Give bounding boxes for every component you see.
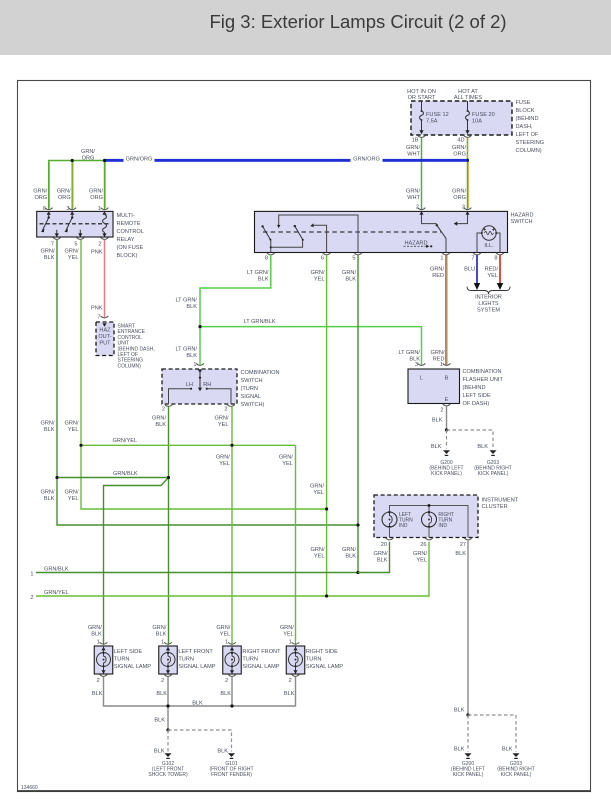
- dashed BLK to G200: [431, 430, 447, 450]
- svg-text:20: 20: [381, 542, 387, 548]
- svg-text:BLK: BLK: [258, 276, 269, 282]
- svg-text:7.5A: 7.5A: [426, 119, 438, 125]
- svg-text:COMBINATION: COMBINATION: [241, 370, 280, 376]
- label COMBINATION FLASHER UNIT (BEHIND LEFT SIDE OF DASH): [463, 369, 504, 407]
- svg-text:RIGHT SIDE: RIGHT SIDE: [306, 649, 338, 655]
- svg-text:(ON FUSE: (ON FUSE: [117, 245, 144, 251]
- svg-text:SWITCH: SWITCH: [241, 378, 263, 384]
- svg-text:GRN/YEL: GRN/YEL: [44, 590, 69, 596]
- label LEFT FRONT TURN SIGNAL LAMP: [178, 649, 215, 670]
- svg-text:BLK: BLK: [155, 422, 166, 428]
- svg-text:IND: IND: [438, 523, 447, 529]
- right side turn signal lamp: [286, 646, 305, 674]
- hazard switch arm B: [294, 225, 304, 241]
- svg-text:7: 7: [51, 241, 54, 247]
- svg-text:GRN/: GRN/: [65, 490, 79, 496]
- svg-text:ORG: ORG: [58, 195, 71, 201]
- svg-text:YEL: YEL: [68, 427, 79, 433]
- svg-text:LT GRN/: LT GRN/: [175, 297, 197, 303]
- label HOT AT ALL TIMES: [454, 89, 483, 101]
- svg-text:FLASHER UNIT: FLASHER UNIT: [463, 377, 504, 383]
- label GRN/YEL lower riser: [65, 490, 79, 503]
- wire GRN/ORG to relay pin 1: [104, 161, 107, 210]
- svg-text:2: 2: [225, 678, 228, 684]
- svg-text:BLK: BLK: [455, 551, 466, 557]
- wire GRN/ORG to relay pin 3: [71, 161, 74, 210]
- svg-text:OUT-: OUT-: [98, 334, 111, 340]
- label GRN/YEL above right side turn signal lamp: [280, 625, 294, 638]
- svg-text:YEL: YEL: [314, 276, 325, 282]
- label GRN/YEL under relay pin 5: [65, 248, 79, 260]
- hazard switch internal linkage dashed line: [263, 231, 441, 233]
- svg-text:SIGNAL: SIGNAL: [241, 394, 262, 400]
- wire BLK left front lamp to ground splice: [167, 677, 169, 730]
- svg-text:OF DASH): OF DASH): [463, 401, 490, 407]
- junction node GRN/YEL at comb switch drop: [230, 444, 233, 447]
- label HAZARD with pointer: [404, 240, 433, 248]
- svg-text:1B: 1B: [412, 138, 419, 144]
- svg-text:CLUSTER: CLUSTER: [482, 504, 508, 510]
- svg-text:1: 1: [30, 571, 33, 577]
- junction node LT GRN/BLK: [198, 325, 201, 328]
- svg-text:LT GRN/: LT GRN/: [175, 347, 197, 353]
- label GRN/BLK under comb switch left pin 2: [152, 415, 166, 428]
- svg-text:TURN: TURN: [178, 657, 194, 663]
- svg-text:PNK: PNK: [91, 306, 103, 312]
- svg-text:BLK: BLK: [192, 700, 203, 706]
- svg-text:2: 2: [97, 678, 100, 684]
- wire LT GRN/BLK hazard pin 8 to combination switch pin 1: [175, 255, 270, 365]
- svg-text:BLK: BLK: [44, 255, 55, 261]
- svg-text:26: 26: [420, 542, 426, 548]
- svg-text:1: 1: [440, 255, 443, 261]
- svg-text:YEL: YEL: [314, 554, 325, 560]
- svg-text:GRN/ORG: GRN/ORG: [353, 156, 380, 162]
- label GRN/ORG above relay pin 6: [33, 189, 47, 202]
- relay internal linkage dashed line: [40, 223, 111, 225]
- label GRN/BLK mid riser: [41, 421, 55, 434]
- hazard internal wire from arms to pin 5: [277, 215, 358, 253]
- wire GRN/BLK crossover comb switch pin2 to relay pin7 riser: [57, 471, 169, 478]
- svg-text:KICK PANEL): KICK PANEL): [453, 772, 484, 778]
- svg-text:134660: 134660: [21, 785, 38, 791]
- wire GRN/BLK comb switch left pin 2 down to left front lamp: [168, 406, 170, 645]
- pin 4D connector: [457, 135, 471, 143]
- wire GRN/BLK hazard pin 5 down to cluster pin 20: [357, 255, 359, 573]
- svg-text:BLK: BLK: [345, 554, 356, 560]
- svg-text:YEL: YEL: [313, 490, 324, 496]
- combination flasher unit box: [408, 369, 460, 404]
- dashed BLK to G102: [154, 730, 168, 754]
- relay coil pin1-pin2: [102, 211, 106, 237]
- svg-text:B: B: [445, 376, 449, 382]
- svg-text:GRN/: GRN/: [88, 625, 102, 631]
- wire BLU to interior lights system: [474, 255, 480, 290]
- label GRN/YEL above right side lamp riser: [279, 455, 293, 468]
- right front turn signal lamp: [223, 646, 242, 674]
- svg-text:GRN/: GRN/: [65, 421, 79, 427]
- hazard switch arm C (hazard contact): [436, 224, 446, 253]
- wire BLK flasher pin 2 to ground splice: [432, 406, 447, 430]
- label GRN/YEL above right front turn signal lamp: [216, 625, 230, 638]
- svg-text:8: 8: [494, 255, 497, 261]
- svg-text:FUSE: FUSE: [516, 100, 531, 106]
- hazard top pin connectors 2,3: [418, 208, 426, 210]
- label GRN/ORG above relay pin 1: [89, 189, 103, 202]
- svg-text:GRN/: GRN/: [152, 415, 166, 421]
- left side turn signal lamp pin 2 connector: [97, 674, 108, 684]
- wire GRN/YEL relay pin 5 down and right to hazard pin6 riser: [81, 240, 327, 509]
- svg-text:ORG: ORG: [34, 195, 47, 201]
- svg-text:(TURN: (TURN: [241, 386, 258, 392]
- svg-text:8: 8: [265, 255, 268, 261]
- svg-text:SHOCK TOWER): SHOCK TOWER): [148, 772, 188, 778]
- svg-text:GRN/: GRN/: [81, 149, 95, 155]
- junction node relay pin1 riser / bus start: [103, 159, 106, 162]
- label GRN/RED under hazard pin 1: [430, 266, 444, 279]
- label GRN/BLK above left front turn signal lamp: [152, 625, 166, 638]
- svg-text:BLK: BLK: [156, 632, 167, 638]
- svg-text:GRN/: GRN/: [311, 270, 325, 276]
- wire BLK right front lamp to bus: [231, 677, 233, 706]
- svg-text:3: 3: [66, 206, 69, 212]
- wire GRN/YEL drop to right side lamp: [295, 445, 297, 645]
- svg-text:1: 1: [440, 362, 443, 368]
- dashed BLK to G200 right pair: [454, 715, 468, 753]
- left front turn signal lamp pin 1 connector: [161, 640, 172, 646]
- label GRN/YEL hazard pin6 riser lower: [311, 547, 325, 560]
- svg-text:BLK: BLK: [44, 496, 55, 502]
- svg-text:IND: IND: [399, 523, 408, 529]
- ground splice node: [445, 428, 448, 431]
- junction node bus at right front lamp: [230, 704, 233, 707]
- svg-text:FUSE 12: FUSE 12: [426, 112, 449, 118]
- label GRN/BLK lower riser: [41, 490, 55, 503]
- svg-text:CONTROL: CONTROL: [117, 229, 144, 235]
- svg-text:GRN/: GRN/: [311, 547, 325, 553]
- hazard internal wire to pin 6: [310, 223, 326, 252]
- svg-text:GRN/: GRN/: [41, 248, 55, 254]
- relay bottom pin connectors 7,5,2: [53, 237, 61, 239]
- svg-text:GRN/: GRN/: [65, 248, 79, 254]
- svg-text:1: 1: [193, 362, 196, 368]
- label GRN/BLK under cluster pin 20: [374, 551, 388, 564]
- right front turn signal lamp pin 1 connector: [225, 640, 236, 646]
- svg-text:BLK: BLK: [91, 632, 102, 638]
- svg-text:E: E: [445, 397, 449, 403]
- junction node bus at left front lamp: [166, 704, 169, 707]
- svg-text:10A: 10A: [472, 119, 482, 125]
- dashed BLK to G101: [168, 730, 232, 754]
- ground G102 (left front shock tower): [148, 753, 188, 778]
- right side turn signal lamp pin 2 connector: [289, 674, 300, 684]
- svg-text:5: 5: [74, 241, 77, 247]
- left turn indicator lamp: [382, 511, 413, 538]
- label LT GRN/BLK under hazard pin 8: [247, 270, 269, 283]
- svg-text:BLK: BLK: [217, 748, 228, 754]
- svg-text:SIGNAL LAMP: SIGNAL LAMP: [178, 664, 215, 670]
- svg-text:COMBINATION: COMBINATION: [463, 369, 502, 375]
- label HOT IN ON OR START: [407, 89, 436, 101]
- svg-text:YEL: YEL: [220, 632, 231, 638]
- svg-text:2: 2: [224, 406, 227, 412]
- svg-text:FRONT FENDER): FRONT FENDER): [211, 772, 252, 778]
- svg-text:BLU: BLU: [464, 266, 475, 272]
- svg-text:GRN/: GRN/: [57, 189, 71, 195]
- combination flasher unit top pin connectors 3,1: [418, 363, 426, 365]
- svg-text:TURN: TURN: [306, 657, 322, 663]
- svg-text:LEFT OF: LEFT OF: [516, 132, 539, 138]
- svg-text:BLK: BLK: [431, 444, 442, 450]
- svg-text:GRN/YEL: GRN/YEL: [113, 438, 138, 444]
- relay top pin connectors 6,3,1: [45, 208, 53, 210]
- svg-text:(BEHIND: (BEHIND: [463, 385, 486, 391]
- label GRN/BLK under hazard pin 5: [342, 270, 356, 283]
- hazard switch ILL lamp: [477, 226, 500, 253]
- svg-text:GRN/ORG: GRN/ORG: [126, 156, 153, 162]
- svg-text:HAZARD: HAZARD: [405, 240, 428, 246]
- hazard internal wire pin 2 to arm C: [422, 211, 437, 223]
- svg-text:LEFT FRONT: LEFT FRONT: [178, 649, 213, 655]
- interior lights system brace and label: [467, 287, 510, 314]
- left side turn signal lamp: [94, 646, 113, 674]
- svg-text:MULTI-: MULTI-: [117, 213, 135, 219]
- svg-text:GRN/: GRN/: [342, 547, 356, 553]
- ground G203 (behind right kick panel): [474, 450, 512, 477]
- svg-text:HAZARD: HAZARD: [511, 213, 534, 219]
- svg-text:COLUMN): COLUMN): [516, 148, 542, 154]
- wire BLK cluster pin 27 to ground splice: [454, 540, 468, 715]
- svg-text:RED/: RED/: [485, 266, 499, 272]
- svg-text:PNK: PNK: [91, 250, 103, 256]
- svg-text:5: 5: [352, 255, 355, 261]
- svg-text:RH: RH: [203, 382, 211, 388]
- label LEFT SIDE TURN SIGNAL LAMP: [114, 649, 151, 670]
- svg-text:GRN/: GRN/: [406, 145, 420, 151]
- svg-text:TURN: TURN: [114, 657, 130, 663]
- dashed BLK to G203: [447, 430, 494, 450]
- svg-text:GRN/: GRN/: [279, 455, 293, 461]
- svg-text:YEL: YEL: [68, 496, 79, 502]
- svg-text:ILL.: ILL.: [484, 243, 494, 249]
- svg-text:YEL: YEL: [282, 461, 293, 467]
- svg-text:BLK: BLK: [92, 691, 103, 697]
- svg-text:LEFT SIDE: LEFT SIDE: [114, 649, 142, 655]
- svg-text:INSTRUMENT: INSTRUMENT: [482, 498, 519, 504]
- label FUSE BLOCK (BEHIND DASH, LEFT OF STEERING COLUMN): [516, 100, 545, 154]
- svg-text:GRN/BLK: GRN/BLK: [44, 566, 69, 572]
- label INSTRUMENT CLUSTER: [482, 498, 519, 511]
- svg-text:4D: 4D: [457, 138, 464, 144]
- svg-text:1: 1: [97, 640, 100, 646]
- svg-text:GRN/: GRN/: [413, 551, 427, 557]
- svg-text:2: 2: [162, 406, 165, 412]
- svg-text:GRN/: GRN/: [215, 415, 229, 421]
- svg-text:LEFT SIDE: LEFT SIDE: [463, 393, 491, 399]
- wire GRN/BLK relay pin 7 down and right to hazard pin5 riser: [57, 240, 358, 525]
- multi-remote control relay box: [37, 211, 113, 237]
- svg-text:LT GRN/BLK: LT GRN/BLK: [244, 319, 276, 325]
- svg-text:HOT AT: HOT AT: [458, 89, 478, 95]
- fuse 12 7.5A: [419, 101, 448, 134]
- label GRN/ORG above relay pin 3: [57, 189, 71, 202]
- label GRN/BLK above left side turn signal lamp: [88, 625, 102, 638]
- svg-text:YEL: YEL: [283, 632, 294, 638]
- wire numbered line 1 GRN/BLK: [30, 566, 358, 577]
- wire BLK lamp ground bus: [104, 677, 296, 707]
- label GRN/BLK under relay pin 7: [41, 248, 55, 260]
- svg-text:LT GRN/: LT GRN/: [247, 270, 269, 276]
- svg-text:1: 1: [289, 640, 292, 646]
- svg-text:ORG: ORG: [453, 195, 466, 201]
- svg-text:GRN/: GRN/: [452, 145, 466, 151]
- combination switch (turn signal switch) box: [162, 369, 237, 404]
- svg-text:2: 2: [98, 241, 101, 247]
- wire GRN/YEL crossover to comb switch right pin 2 and right lamps: [81, 438, 296, 446]
- svg-text:BLK: BLK: [284, 691, 295, 697]
- junction node line1 to cluster pin 20 branch: [356, 571, 359, 574]
- svg-text:OR START: OR START: [408, 95, 436, 101]
- junction node GRN/YEL at y509: [325, 507, 328, 510]
- wire GRN/ORG relay feed horizontal: [49, 149, 105, 209]
- svg-text:2: 2: [416, 205, 419, 211]
- wire RED/YEL to interior lights system: [497, 255, 503, 290]
- svg-text:GRN/: GRN/: [216, 625, 230, 631]
- svg-text:BLK: BLK: [432, 418, 443, 424]
- svg-text:RED: RED: [432, 273, 444, 279]
- svg-text:GRN/: GRN/: [152, 625, 166, 631]
- svg-text:GRN/: GRN/: [33, 189, 47, 195]
- svg-text:GRN/: GRN/: [89, 189, 103, 195]
- svg-text:BLOCK): BLOCK): [117, 253, 138, 259]
- svg-text:KICK PANEL): KICK PANEL): [478, 471, 509, 477]
- svg-text:BLK: BLK: [44, 427, 55, 433]
- hazard switch arm A (left): [261, 225, 271, 240]
- wire GRN/WHT fuse 1B to hazard switch pin 2: [406, 138, 421, 209]
- svg-text:SWITCH: SWITCH: [511, 219, 533, 225]
- label HAZARD SWITCH: [511, 213, 534, 226]
- wire GRN/BLK branch to left side lamp: [104, 478, 169, 645]
- svg-text:2: 2: [289, 678, 292, 684]
- svg-text:GRN/: GRN/: [374, 551, 388, 557]
- svg-text:1: 1: [225, 640, 228, 646]
- svg-text:BLK: BLK: [154, 748, 165, 754]
- wire GRN/RED hazard pin 1 to flasher pin 1: [431, 255, 447, 365]
- svg-text:6: 6: [321, 255, 324, 261]
- hazard internal wire pin 3 with arrow: [454, 211, 470, 226]
- svg-text:YEL: YEL: [219, 461, 230, 467]
- dashed BLK to G203 right pair: [468, 715, 516, 753]
- svg-text:SIGNAL LAMP: SIGNAL LAMP: [242, 664, 279, 670]
- svg-text:GRN/BLK: GRN/BLK: [113, 471, 138, 477]
- ground G101 (front of right front fender): [209, 753, 253, 778]
- svg-text:RIGHT FRONT: RIGHT FRONT: [242, 649, 281, 655]
- svg-text:BLK: BLK: [502, 747, 513, 753]
- wire GRN/YEL hazard pin 6 down to line 2: [326, 255, 328, 596]
- svg-text:YEL: YEL: [68, 255, 79, 261]
- svg-text:YEL: YEL: [487, 273, 498, 279]
- wire GRN/ORG fuse 4D to hazard switch pin 3: [452, 138, 468, 209]
- label GRN/YEL under hazard pin 6: [311, 270, 325, 283]
- hazard bottom pin connectors 8,6,5,1,7,8: [267, 253, 275, 255]
- smart entrance control unit pin 7 connector: [97, 315, 108, 321]
- svg-text:GRN/: GRN/: [280, 625, 294, 631]
- svg-text:BLK: BLK: [377, 557, 388, 563]
- right front turn signal lamp pin 2 connector: [225, 674, 236, 684]
- ground G200 (behind left kick panel): [429, 450, 463, 477]
- svg-text:REMOTE: REMOTE: [117, 221, 141, 227]
- wire LT GRN/BLK branch to combination flasher unit pin 3: [200, 319, 422, 365]
- combination switch pin 1 connector: [193, 362, 204, 368]
- instrument cluster box: [374, 495, 478, 538]
- svg-text:PUT: PUT: [99, 341, 111, 347]
- svg-text:BLK: BLK: [345, 276, 356, 282]
- svg-text:1: 1: [98, 206, 101, 212]
- ground splice node lamps: [166, 728, 169, 731]
- svg-text:YEL: YEL: [416, 557, 427, 563]
- ground G200 (behind left kick panel) lower: [451, 753, 485, 778]
- svg-text:STEERING: STEERING: [516, 140, 545, 146]
- flasher bottom pin connector 2: [440, 404, 450, 413]
- label GRN/YEL under comb switch right pin 2: [215, 415, 229, 428]
- label GRN/YEL above right front lamp riser: [216, 455, 230, 468]
- fuse 20 10A: [465, 101, 494, 134]
- svg-text:27: 27: [460, 542, 466, 548]
- left side turn signal lamp pin 1 connector: [97, 640, 108, 646]
- svg-text:FUSE 20: FUSE 20: [472, 112, 495, 118]
- highlighted GRN/ORG bus (thick blue): [105, 154, 468, 163]
- svg-text:GRN/: GRN/: [41, 490, 55, 496]
- svg-text:YEL: YEL: [218, 422, 229, 428]
- wire GRN/YEL comb switch right pin 2 down to right front lamp: [231, 406, 233, 645]
- svg-text:BLK: BLK: [154, 718, 165, 724]
- svg-text:LH: LH: [186, 382, 193, 388]
- svg-text:DASH,: DASH,: [516, 124, 534, 130]
- svg-text:ALL TIMES: ALL TIMES: [454, 95, 483, 101]
- fuse block (behind dash, left of steering column): [411, 101, 512, 135]
- svg-text:BLK: BLK: [156, 691, 167, 697]
- svg-text:RELAY: RELAY: [117, 237, 135, 243]
- combination switch internals: [169, 369, 232, 404]
- svg-text:1: 1: [161, 640, 164, 646]
- svg-text:WHT: WHT: [407, 195, 420, 201]
- svg-text:SIGNAL LAMP: SIGNAL LAMP: [114, 664, 151, 670]
- svg-text:BLK: BLK: [454, 708, 465, 714]
- svg-text:TURN: TURN: [242, 657, 258, 663]
- junction node: bus to GRN/ORG wire: [466, 159, 469, 162]
- svg-text:BLK: BLK: [186, 304, 197, 310]
- svg-text:GRN/: GRN/: [452, 189, 466, 195]
- label GRN/BLK hazard pin5 riser lower: [342, 547, 356, 560]
- pin 1B connector: [412, 135, 426, 143]
- combination switch bottom pin connectors 2,2: [165, 404, 173, 406]
- svg-text:ORG: ORG: [453, 151, 466, 157]
- junction node relay pin3 riser: [71, 159, 74, 162]
- svg-text:3: 3: [462, 205, 465, 211]
- svg-text:WHT: WHT: [407, 151, 420, 157]
- svg-text:GRN/: GRN/: [310, 484, 324, 490]
- svg-text:7: 7: [471, 255, 474, 261]
- svg-text:HAZ: HAZ: [99, 328, 111, 334]
- svg-text:BLOCK: BLOCK: [516, 108, 535, 114]
- right turn indicator lamp: [422, 511, 454, 538]
- svg-text:COLUMN): COLUMN): [118, 363, 142, 369]
- svg-text:3: 3: [415, 362, 418, 368]
- svg-text:BLK: BLK: [477, 444, 488, 450]
- svg-text:GRN/: GRN/: [41, 421, 55, 427]
- svg-text:HOT IN ON: HOT IN ON: [407, 89, 436, 95]
- junction node GRN/BLK at relay riser: [55, 476, 58, 479]
